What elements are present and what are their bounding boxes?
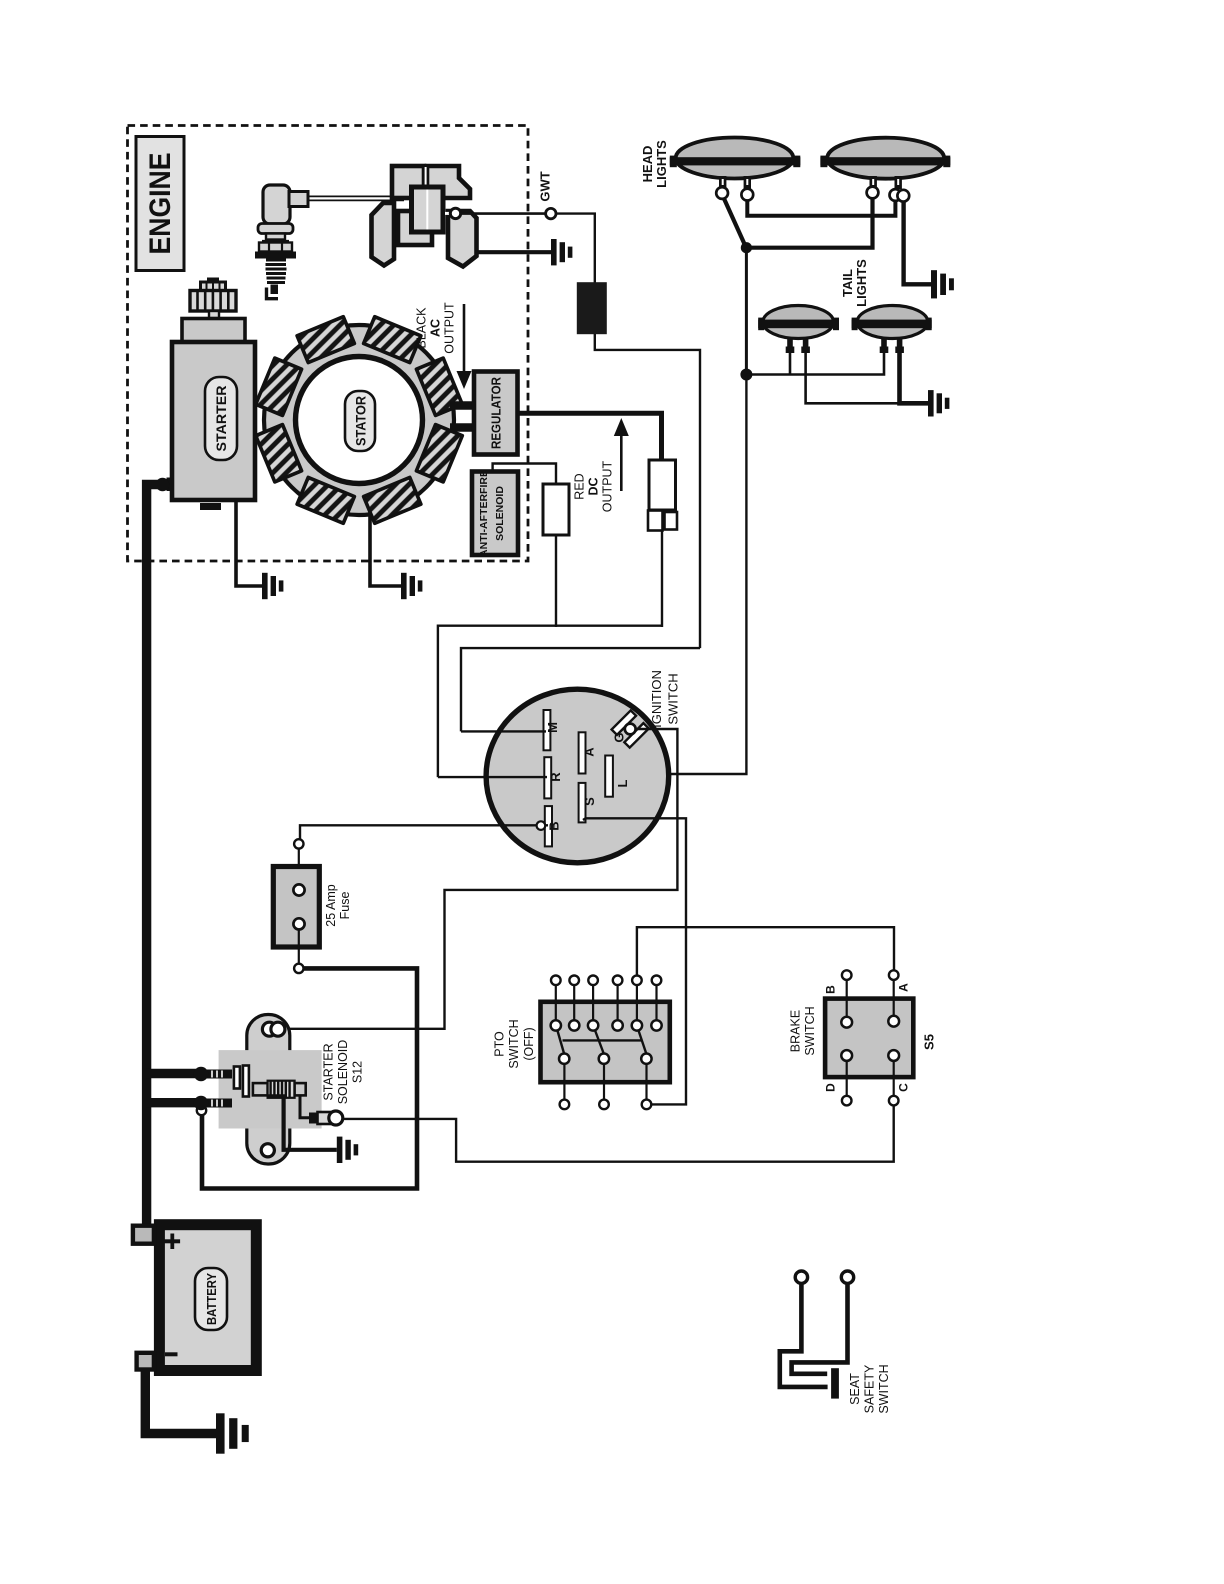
DC output arrow	[614, 418, 629, 491]
wire headlight1 right to headlight2 right	[747, 200, 895, 216]
wire PTO to brake switch A	[637, 927, 894, 975]
GWT terminal	[546, 208, 556, 218]
solenoid stud terminal 2	[194, 1096, 232, 1110]
wire headlight2 to ground	[904, 201, 931, 284]
svg-text:B: B	[824, 985, 838, 994]
seat safety switch terminal 1	[795, 1271, 807, 1283]
IGNITION SWITCH label	[649, 670, 681, 728]
wire armature to GWT terminal	[461, 212, 546, 215]
solenoid internal ground path	[268, 1096, 337, 1150]
wire headlight1 left terminal to junction	[724, 198, 747, 249]
stator to regulator stubs	[450, 406, 474, 428]
svg-text:SWITCH: SWITCH	[507, 1019, 521, 1068]
svg-text:PTO: PTO	[493, 1031, 507, 1057]
wire fuse to battery junction	[202, 968, 417, 1188]
starter terminal stud	[156, 478, 173, 492]
ignition module (black box)	[577, 282, 607, 334]
wire trunk to solenoid stud 1	[146, 1069, 196, 1078]
svg-text:25 Amp: 25 Amp	[324, 884, 338, 926]
starter motor	[172, 278, 255, 511]
svg-text:LIGHTS: LIGHTS	[654, 140, 669, 188]
svg-text:STARTER: STARTER	[213, 386, 229, 452]
BLACK AC OUTPUT label	[415, 302, 457, 354]
svg-text:L: L	[615, 779, 630, 787]
headlight ground	[931, 270, 954, 298]
wire M terminal feed	[461, 730, 546, 732]
resistor R-a (white box)	[543, 484, 569, 535]
starter ground	[262, 573, 283, 599]
svg-text:OUTPUT: OUTPUT	[601, 460, 615, 512]
svg-text:M: M	[545, 722, 560, 733]
wire resistor R-a to bus	[555, 535, 557, 627]
svg-text:SWITCH: SWITCH	[803, 1006, 817, 1055]
fuse bottom terminal	[294, 964, 303, 973]
seat safety switch terminal 2	[841, 1271, 853, 1283]
wire junction B down to ignition L terminal	[613, 375, 747, 775]
seat safety switch contact 1	[780, 1284, 828, 1387]
svg-text:RED: RED	[573, 473, 587, 499]
wire B terminal to fuse	[300, 825, 548, 839]
svg-text:OUTPUT: OUTPUT	[443, 302, 457, 354]
svg-text:BRAKE: BRAKE	[789, 1010, 803, 1052]
RED DC OUTPUT label	[573, 460, 615, 512]
svg-text:D: D	[824, 1083, 838, 1092]
bus wire (M terminal feed)	[461, 648, 700, 731]
anti-afterfire solenoid box	[472, 470, 518, 557]
headlight 1	[670, 138, 801, 201]
engine boundary (dashed box)	[128, 126, 529, 562]
svg-text:A: A	[897, 983, 911, 992]
svg-text:B: B	[547, 821, 562, 830]
wire stator to ground	[370, 512, 401, 586]
svg-text:SOLENOID: SOLENOID	[494, 486, 506, 541]
svg-text:R: R	[548, 772, 563, 782]
starter solenoid S12	[219, 1015, 322, 1165]
PTO switch	[541, 976, 670, 1110]
svg-text:LIGHTS: LIGHTS	[854, 259, 869, 307]
svg-text:SWITCH: SWITCH	[877, 1364, 891, 1413]
svg-text:S: S	[582, 797, 597, 806]
TAIL LIGHTS label	[840, 259, 869, 307]
wire S terminal to PTO switch	[583, 818, 686, 1104]
ignition armature/coil assembly	[372, 166, 477, 267]
wire DC fuse element to bus	[661, 530, 663, 627]
tail light 1	[758, 306, 839, 354]
HEAD LIGHTS label	[640, 140, 669, 188]
tail light 2	[852, 306, 932, 354]
battery	[159, 1225, 256, 1371]
wire anti-afterfire to resistor R-a	[493, 464, 556, 485]
solenoid ground	[337, 1137, 358, 1163]
svg-text:REGULATOR: REGULATOR	[489, 376, 504, 449]
wire G terminal to starter solenoid coil	[284, 729, 677, 1029]
tail light ground	[928, 390, 949, 416]
regulator	[474, 372, 518, 455]
svg-text:SWITCH: SWITCH	[666, 673, 681, 724]
fuse top terminal	[294, 839, 303, 848]
junction node B (tail light feed)	[740, 369, 752, 381]
wire armature to engine ground	[477, 250, 552, 254]
svg-text:SOLENOID: SOLENOID	[336, 1040, 350, 1105]
wire brake C to starter solenoid terminal	[342, 1105, 894, 1161]
wire trunk to solenoid stud 2	[146, 1098, 196, 1107]
spark plug	[255, 185, 308, 299]
brake switch S5	[824, 970, 914, 1105]
svg-text:(OFF): (OFF)	[522, 1027, 536, 1060]
svg-text:Fuse: Fuse	[338, 892, 352, 920]
svg-text:BATTERY: BATTERY	[205, 1272, 219, 1325]
wire tail light1 left prong to feed bus	[789, 353, 792, 375]
svg-text:AC: AC	[429, 319, 443, 337]
svg-text:BLACK: BLACK	[415, 307, 429, 349]
junction node A (headlight feed)	[741, 242, 752, 253]
svg-text:ENGINE: ENGINE	[144, 153, 177, 255]
ignition switch	[486, 689, 669, 863]
solenoid stud terminal 1	[194, 1067, 232, 1081]
wire GWT to ignition module	[556, 214, 595, 283]
battery positive trunk wire (starter / solenoid / battery)	[147, 485, 162, 1227]
wire starter to ground	[236, 502, 262, 586]
svg-text:STATOR: STATOR	[354, 396, 369, 446]
svg-text:IGNITION: IGNITION	[649, 670, 664, 728]
svg-text:A: A	[582, 747, 597, 757]
ignition key symbol (G terminal)	[612, 710, 649, 747]
wire R terminal feed	[438, 776, 547, 778]
B terminal connector circle	[537, 821, 546, 830]
wire tail light1 right prong to ground bus	[806, 353, 900, 403]
wire junction B to tail lights	[746, 353, 884, 375]
spark plug wire	[308, 196, 404, 200]
wire battery negative to ground	[145, 1370, 216, 1434]
battery ground	[216, 1413, 249, 1453]
wire tail light2 right prong to ground	[900, 353, 929, 403]
battery negative terminal	[137, 1353, 154, 1370]
svg-text:HEAD: HEAD	[640, 146, 655, 183]
svg-text:SAFETY: SAFETY	[863, 1364, 877, 1413]
svg-text:TAIL: TAIL	[840, 269, 855, 297]
stator ground	[401, 573, 422, 599]
bus wire (R terminal feed)	[438, 626, 662, 777]
AC output arrow	[457, 304, 472, 389]
seat safety switch contact 2	[792, 1284, 848, 1374]
svg-text:STARTER: STARTER	[322, 1043, 336, 1100]
SEAT SAFETY SWITCH label	[848, 1364, 891, 1414]
svg-text:S5: S5	[922, 1034, 937, 1050]
stator	[256, 317, 463, 524]
svg-text:DC: DC	[587, 477, 601, 495]
seat safety switch plunger	[831, 1368, 839, 1398]
headlight 2	[820, 138, 950, 202]
svg-text:ANTI-AFTERFIRE: ANTI-AFTERFIRE	[478, 470, 490, 557]
solenoid coil output terminal	[309, 1111, 343, 1125]
wire junction to headlight2 left terminal	[746, 198, 872, 248]
25 Amp fuse	[273, 849, 352, 964]
svg-text:C: C	[897, 1083, 911, 1092]
battery positive terminal	[133, 1226, 154, 1244]
engine ground	[551, 239, 572, 265]
DC output wire regulator to fuse element	[518, 413, 662, 460]
wire junction A down to junction B	[745, 248, 748, 375]
STARTER SOLENOID S12 label	[322, 1040, 365, 1105]
svg-text:GWT: GWT	[538, 171, 553, 201]
svg-text:S12: S12	[351, 1061, 365, 1083]
wire module to M-bus	[595, 334, 700, 648]
ENGINE label box	[136, 137, 184, 271]
DC fuse element (white box with connector)	[648, 460, 677, 531]
PTO SWITCH label	[493, 1019, 537, 1068]
solenoid mounting hole	[261, 1144, 274, 1157]
battery junction connector circle	[197, 1106, 206, 1115]
BRAKE SWITCH label	[789, 1006, 818, 1055]
svg-text:SEAT: SEAT	[848, 1373, 862, 1405]
